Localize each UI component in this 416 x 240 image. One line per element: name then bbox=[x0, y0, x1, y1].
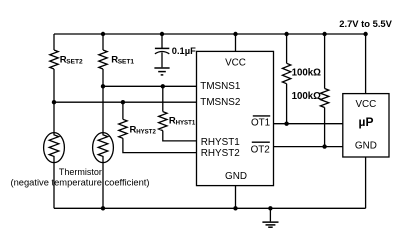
svg-text:GND: GND bbox=[355, 141, 377, 152]
svg-text:RHYST1: RHYST1 bbox=[201, 137, 240, 148]
svg-text:VCC: VCC bbox=[225, 57, 246, 68]
svg-text:SET1: SET1 bbox=[118, 59, 135, 66]
svg-text:Thermistor: Thermistor bbox=[59, 167, 102, 177]
svg-text:TMSNS2: TMSNS2 bbox=[200, 97, 240, 108]
svg-text:GND: GND bbox=[225, 171, 247, 182]
svg-text:SET2: SET2 bbox=[66, 59, 83, 66]
svg-text:HYST1: HYST1 bbox=[176, 120, 196, 127]
svg-text:0.1µF: 0.1µF bbox=[172, 46, 196, 56]
svg-text:RHYST2: RHYST2 bbox=[201, 148, 240, 159]
svg-text:2.7V to 5.5V: 2.7V to 5.5V bbox=[339, 18, 392, 29]
svg-text:VCC: VCC bbox=[355, 99, 376, 110]
svg-text:OT2: OT2 bbox=[251, 144, 270, 155]
svg-text:HYST2: HYST2 bbox=[136, 129, 156, 136]
svg-text:OT1: OT1 bbox=[251, 117, 271, 128]
svg-text:(negative temperature coeffici: (negative temperature coefficient) bbox=[10, 178, 149, 188]
svg-text:100kΩ: 100kΩ bbox=[292, 91, 322, 102]
svg-text:TMSNS1: TMSNS1 bbox=[200, 81, 241, 92]
svg-text:100kΩ: 100kΩ bbox=[292, 67, 322, 78]
svg-text:µP: µP bbox=[359, 115, 374, 129]
